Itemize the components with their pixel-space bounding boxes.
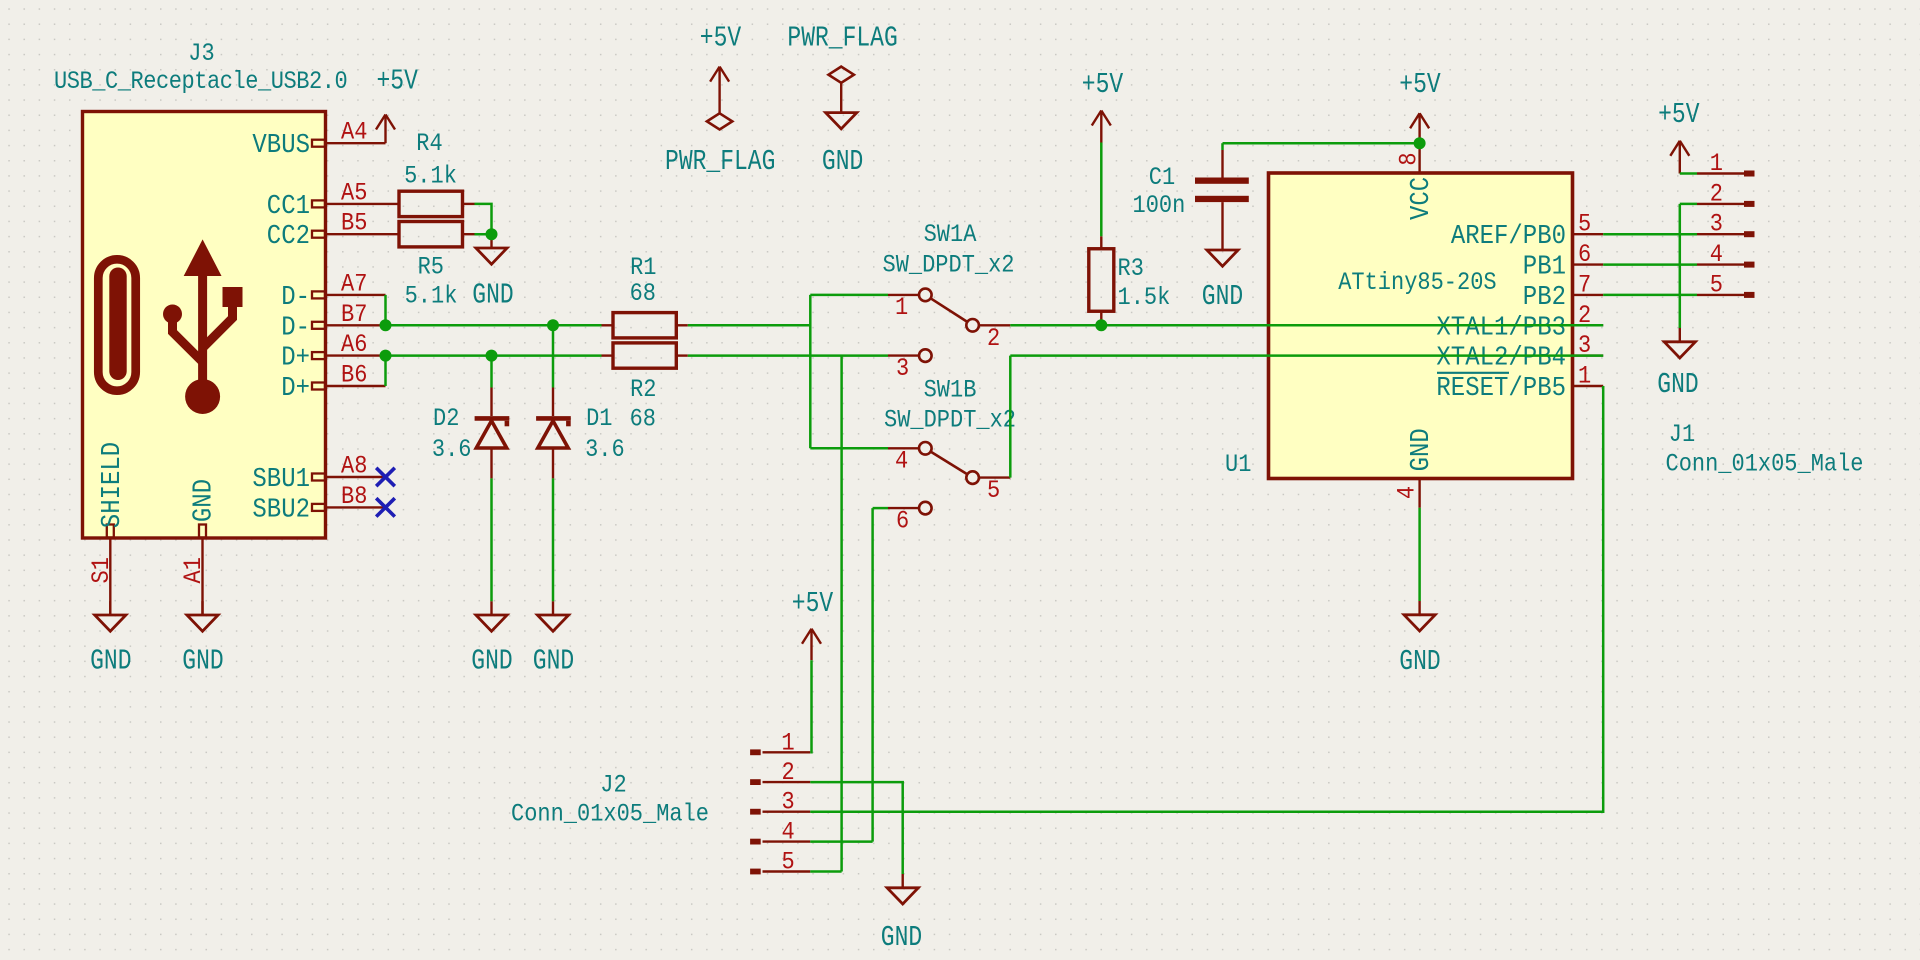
svg-text:AREF/PB0: AREF/PB0: [1451, 221, 1566, 251]
svg-text:D2: D2: [433, 405, 459, 434]
svg-text:1: 1: [782, 729, 795, 758]
svg-text:4: 4: [782, 818, 795, 847]
svg-text:SW1B: SW1B: [924, 376, 977, 405]
svg-text:+5V: +5V: [1658, 98, 1700, 131]
svg-text:PB1: PB1: [1523, 252, 1566, 282]
svg-text:C1: C1: [1149, 164, 1175, 193]
svg-text:3: 3: [896, 355, 909, 384]
svg-text:1: 1: [895, 294, 908, 323]
svg-text:A6: A6: [341, 331, 367, 360]
svg-text:+5V: +5V: [792, 587, 834, 620]
svg-text:+5V: +5V: [700, 21, 742, 54]
svg-text:GND: GND: [822, 145, 863, 178]
svg-text:B7: B7: [341, 301, 367, 330]
svg-text:RESET/PB5: RESET/PB5: [1436, 373, 1566, 403]
svg-text:6: 6: [1578, 241, 1591, 270]
svg-text:4: 4: [1393, 486, 1422, 499]
svg-text:B5: B5: [341, 210, 367, 239]
svg-text:R3: R3: [1118, 255, 1144, 284]
svg-text:GND: GND: [881, 921, 922, 954]
svg-text:1.5k: 1.5k: [1118, 284, 1171, 313]
svg-text:2: 2: [987, 325, 1000, 354]
svg-text:R2: R2: [630, 376, 656, 405]
svg-text:Conn_01x05_Male: Conn_01x05_Male: [511, 800, 709, 829]
svg-text:SW1A: SW1A: [924, 221, 978, 250]
svg-text:SBU2: SBU2: [252, 494, 310, 524]
svg-text:GND: GND: [471, 644, 512, 677]
svg-text:3.6: 3.6: [432, 436, 472, 465]
svg-text:XTAL2/PB4: XTAL2/PB4: [1436, 343, 1566, 373]
svg-text:SW_DPDT_x2: SW_DPDT_x2: [884, 406, 1016, 435]
svg-text:SHIELD: SHIELD: [97, 442, 127, 528]
svg-text:SBU1: SBU1: [252, 464, 310, 494]
svg-text:2: 2: [782, 759, 795, 788]
svg-text:GND: GND: [1406, 428, 1436, 471]
svg-text:J3: J3: [188, 40, 214, 69]
svg-text:+5V: +5V: [1082, 68, 1124, 101]
svg-text:PB2: PB2: [1523, 282, 1566, 312]
svg-text:B8: B8: [341, 483, 367, 512]
svg-text:4: 4: [1710, 241, 1723, 270]
svg-text:D+: D+: [281, 373, 310, 403]
svg-text:J2: J2: [600, 771, 626, 800]
svg-text:68: 68: [630, 405, 656, 434]
svg-text:SW_DPDT_x2: SW_DPDT_x2: [882, 251, 1014, 280]
svg-text:GND: GND: [182, 644, 223, 677]
svg-text:U1: U1: [1225, 451, 1251, 480]
svg-text:PWR_FLAG: PWR_FLAG: [787, 21, 897, 54]
svg-text:VBUS: VBUS: [252, 130, 310, 160]
svg-text:8: 8: [1395, 152, 1424, 165]
svg-text:GND: GND: [533, 644, 574, 677]
svg-text:5: 5: [987, 477, 1000, 506]
svg-text:VCC: VCC: [1406, 177, 1436, 220]
svg-text:GND: GND: [189, 479, 219, 522]
svg-text:XTAL1/PB3: XTAL1/PB3: [1436, 312, 1566, 342]
svg-text:7: 7: [1578, 271, 1591, 300]
svg-text:B6: B6: [341, 361, 367, 390]
svg-text:S1: S1: [88, 557, 117, 583]
svg-text:+5V: +5V: [377, 64, 419, 97]
svg-text:D1: D1: [586, 405, 612, 434]
svg-text:GND: GND: [1657, 368, 1698, 401]
svg-text:A4: A4: [341, 119, 367, 148]
svg-text:A5: A5: [341, 179, 367, 208]
svg-text:100n: 100n: [1133, 192, 1186, 221]
svg-text:GND: GND: [90, 644, 131, 677]
svg-text:1: 1: [1578, 362, 1591, 391]
svg-text:5.1k: 5.1k: [405, 282, 458, 311]
svg-text:GND: GND: [1202, 280, 1243, 313]
svg-text:5: 5: [1710, 271, 1723, 300]
svg-text:D-: D-: [281, 312, 310, 342]
svg-text:CC2: CC2: [267, 221, 310, 251]
svg-text:D+: D+: [281, 343, 310, 373]
svg-text:4: 4: [895, 447, 908, 476]
svg-text:USB_C_Receptacle_USB2.0: USB_C_Receptacle_USB2.0: [54, 68, 347, 97]
svg-text:R5: R5: [418, 253, 444, 282]
svg-text:Conn_01x05_Male: Conn_01x05_Male: [1666, 450, 1864, 479]
svg-text:5.1k: 5.1k: [404, 162, 457, 191]
svg-text:J1: J1: [1669, 421, 1695, 450]
svg-text:3.6: 3.6: [585, 436, 625, 465]
svg-text:R4: R4: [416, 130, 442, 159]
svg-text:A8: A8: [341, 452, 367, 481]
svg-text:3: 3: [1710, 211, 1723, 240]
svg-text:5: 5: [782, 848, 795, 877]
svg-text:GND: GND: [472, 278, 513, 311]
svg-text:PWR_FLAG: PWR_FLAG: [665, 145, 775, 178]
svg-text:2: 2: [1710, 180, 1723, 209]
svg-text:A7: A7: [341, 270, 367, 299]
svg-text:A1: A1: [180, 557, 209, 583]
svg-text:1: 1: [1710, 150, 1723, 179]
svg-text:6: 6: [896, 507, 909, 536]
svg-text:ATtiny85-20S: ATtiny85-20S: [1338, 269, 1496, 298]
svg-text:D-: D-: [281, 282, 310, 312]
svg-text:GND: GND: [1399, 645, 1440, 678]
svg-text:+5V: +5V: [1399, 68, 1441, 101]
svg-text:CC1: CC1: [267, 191, 310, 221]
svg-text:68: 68: [630, 280, 656, 309]
svg-text:5: 5: [1578, 211, 1591, 240]
svg-text:3: 3: [782, 789, 795, 818]
svg-text:R1: R1: [630, 254, 656, 283]
